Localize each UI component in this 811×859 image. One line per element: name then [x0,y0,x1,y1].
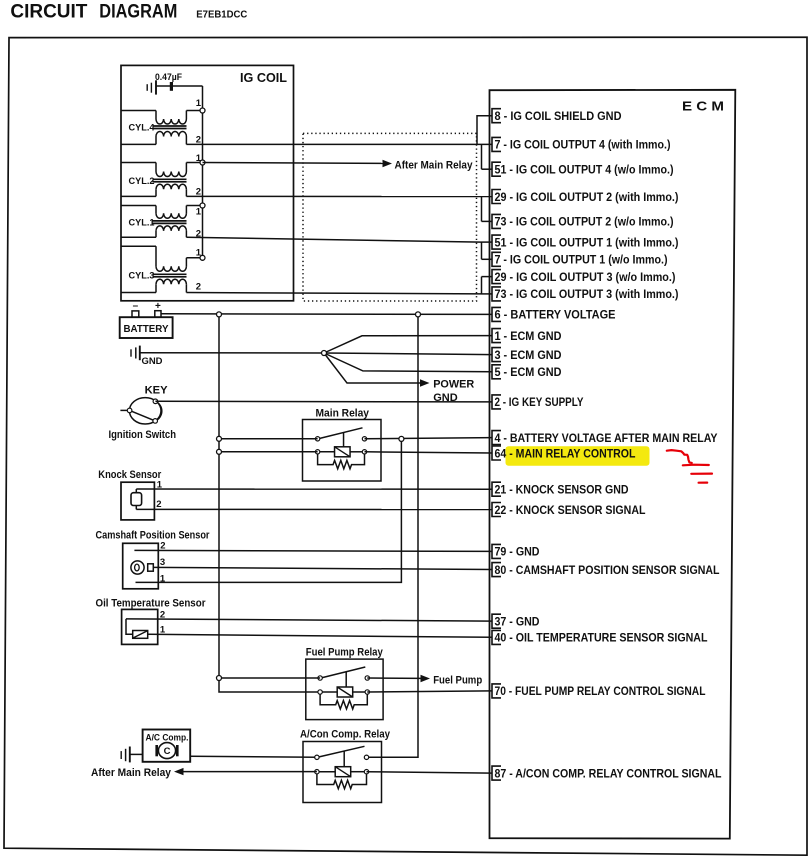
IG COIL box [121,65,294,300]
wire: coil common bus to After Main Relay [203,162,383,165]
svg-text:Knock Sensor: Knock Sensor [98,469,162,481]
wire: bus to main relay coil [219,451,318,453]
svg-text:GND: GND [142,356,163,367]
dotted harness boundary box [303,133,477,301]
wire: oil temp sensor 1 to ECM pin 40 [148,634,492,637]
svg-text:BATTERY: BATTERY [124,323,169,335]
ECM pin 7 - IG COIL OUTPUT 1 (w/o Immo.) [492,252,668,266]
wire: gnd to A/C compressor [130,753,143,755]
wire: ignition switch to ECM pin 2 [155,400,492,403]
svg-text:+: + [155,301,161,312]
svg-text:4 - BATTERY VOLTAGE AFTER MAIN: 4 - BATTERY VOLTAGE AFTER MAIN RELAY [495,433,718,445]
svg-text:2: 2 [196,282,201,293]
motor A/C compressor [143,730,191,762]
ECM pin 64 - MAIN RELAY CONTROL [492,446,636,460]
ECM pin 87 - A/CON COMP. RELAY CONTROL SIGNAL [492,766,722,780]
wire: main relay switch out to ECM pin 4 [365,438,493,439]
svg-text:51 - IG COIL OUTPUT 4 (w/o Imm: 51 - IG COIL OUTPUT 4 (w/o Immo.) [495,165,674,177]
svg-text:2: 2 [156,499,161,510]
svg-text:6 - BATTERY VOLTAGE: 6 - BATTERY VOLTAGE [495,310,616,322]
svg-text:Fuel Pump: Fuel Pump [433,675,482,687]
ECM pin 2 - IG KEY SUPPLY [492,395,584,409]
wire: gnd fan to pin 1 [324,336,492,353]
svg-text:80 - CAMSHAFT POSITION SENSOR: 80 - CAMSHAFT POSITION SENSOR SIGNAL [495,565,720,577]
ECM pin 79 - GND [492,544,540,558]
wire: After Main Relay feed to A/Con relay coil [184,771,317,773]
svg-text:Fuel Pump Relay: Fuel Pump Relay [306,647,384,659]
svg-text:51 - IG COIL OUTPUT 1 (with Im: 51 - IG COIL OUTPUT 1 (with Immo.) [495,237,679,249]
ignition switch S1 (KEY) [109,384,177,441]
svg-text:70 - FUEL PUMP RELAY CONTROL S: 70 - FUEL PUMP RELAY CONTROL SIGNAL [495,686,706,698]
svg-text:73 - IG COIL OUTPUT 3 (with Im: 73 - IG COIL OUTPUT 3 (with Immo.) [495,289,679,301]
ECM pin 37 - GND [492,614,540,628]
battery B1 [120,301,173,339]
svg-text:Ignition Switch: Ignition Switch [109,429,177,441]
svg-text:A/C Comp.: A/C Comp. [146,732,189,742]
svg-text:79 - GND: 79 - GND [495,547,540,559]
svg-text:29 - IG COIL OUTPUT 2 (with Im: 29 - IG COIL OUTPUT 2 (with Immo.) [495,192,679,204]
op ECM box [490,90,736,839]
wire: cam sensor 3 to ECM pin 80 [153,567,492,569]
oil temperature sensor (thermistor) [96,597,207,644]
wire: battery bus down to relays [219,314,320,692]
ECM pin 73 - IG COIL OUTPUT 2 (w/o Immo.) [492,214,674,228]
svg-text:After Main Relay: After Main Relay [395,159,474,171]
wire: CYL.1 output to pins 51/7 [186,237,492,259]
wire: oil temp sensor 2 to ECM pin 37 [126,619,492,621]
ECM pin 6 - BATTERY VOLTAGE [492,307,616,321]
node: junction battery line / A-Con feed [416,312,421,317]
knock sensor [98,469,163,520]
wire: fuel pump relay coil to ECM pin 70 [367,691,492,692]
wire: A/C compressor to A/Con relay switch [190,756,317,757]
wire: gnd fan to POWER GND [324,353,421,383]
svg-text:CYL.2: CYL.2 [129,176,155,187]
svg-text:DIAGRAM: DIAGRAM [99,2,177,23]
ECM pin 21 - KNOCK SENSOR GND [492,482,629,496]
svg-text:A/Con Comp. Relay: A/Con Comp. Relay [300,728,391,740]
wire: battery + to ECM pin 6 (battery voltage) [161,313,492,316]
wire: gnd fan to pin 5 [324,353,492,372]
wire: main relay coil to ECM pin 64 [365,452,493,453]
relay K3 A/Con Comp. Relay [300,728,391,802]
svg-text:2: 2 [160,540,165,551]
title CIRCUIT DIAGRAM [10,2,177,23]
capacitor C1 0.47uF [155,72,203,91]
wire: gnd fan to pin 3 [324,353,492,355]
node: After Main Relay feed (arrow + label) [383,159,474,171]
wire: battery feed down to A/Con relay switch [367,314,419,757]
node: POWER GND (arrow + label) [420,378,474,404]
wire: fuel pump relay switch out to fuel pump [367,677,420,679]
svg-text:E7EB1DCC: E7EB1DCC [196,9,247,20]
svg-text:C: C [164,746,171,757]
svg-text:29 - IG COIL OUTPUT 3 (w/o Imm: 29 - IG COIL OUTPUT 3 (w/o Immo.) [495,272,676,284]
wire: knock sensor 1 to ECM pin 21 [136,488,492,490]
ECM pin 80 - CAMSHAFT POSITION SENSOR SIGNAL [492,563,720,577]
svg-text:1: 1 [160,574,166,585]
ECM pin 40 - OIL TEMPERATURE SENSOR SIGNAL [492,630,708,644]
svg-text:22 - KNOCK SENSOR SIGNAL: 22 - KNOCK SENSOR SIGNAL [495,505,646,517]
ECM pin 51 - IG COIL OUTPUT 1 (with Immo.) [492,235,679,249]
svg-text:2 - IG KEY SUPPLY: 2 - IG KEY SUPPLY [495,397,584,409]
wire: CYL.3 output to pins 29/73 [186,277,492,294]
svg-text:8 - IG COIL SHIELD GND: 8 - IG COIL SHIELD GND [495,111,622,123]
node: coil pin-1 junctions on common bus [200,108,205,260]
wire: CYL.4 output to pins 7/51 [186,144,492,169]
svg-text:73 - IG COIL OUTPUT 2 (w/o Imm: 73 - IG COIL OUTPUT 2 (w/o Immo.) [495,217,674,229]
svg-text:37 - GND: 37 - GND [495,617,540,629]
ignition coil transformer CYL.3 [121,246,203,292]
node: junction bus / fuel pump relay switch [217,676,222,681]
svg-text:CYL.1: CYL.1 [129,218,156,229]
highlight marker on MAIN RELAY CONTROL [506,446,650,466]
svg-text:64 - MAIN RELAY CONTROL: 64 - MAIN RELAY CONTROL [495,448,636,460]
svg-text:3 - ECM GND: 3 - ECM GND [495,350,562,362]
ECM pin 3 - ECM GND [492,348,562,362]
node: After Main Relay (arrow + label, bottom) [91,767,184,779]
wire: cam sensor 2 to ECM pin 79 [134,550,492,551]
svg-text:Main Relay: Main Relay [316,408,370,420]
camshaft position sensor [96,530,211,589]
svg-text:1: 1 [196,98,202,109]
svg-text:7 - IG COIL OUTPUT 4 (with Imm: 7 - IG COIL OUTPUT 4 (with Immo.) [495,140,671,152]
svg-text:Camshaft Position Sensor: Camshaft Position Sensor [96,530,211,542]
ignition coil transformer CYL.2 [121,153,203,198]
svg-text:CYL.3: CYL.3 [129,271,155,282]
ignition coil transformer CYL.1 [121,206,203,240]
wire: main relay out down to camshaft sensor pin 1 [136,439,402,582]
relay K1 Main Relay [303,408,382,481]
ground (A/C compressor) [121,747,130,763]
node: Fuel Pump feed (arrow + label) [421,675,483,687]
svg-text:87 - A/CON COMP. RELAY CONTROL: 87 - A/CON COMP. RELAY CONTROL SIGNAL [495,768,722,780]
svg-text:CYL.4: CYL.4 [129,123,156,134]
wire: IG coil common bus (node to pin-1s) [202,86,204,258]
node: junction main relay output [399,436,404,441]
ECM pin 7 - IG COIL OUTPUT 4 (with Immo.) [492,137,671,151]
svg-text:POWER: POWER [433,378,474,390]
svg-text:Oil Temperature Sensor: Oil Temperature Sensor [96,597,207,609]
svg-text:5 - ECM GND: 5 - ECM GND [495,367,562,379]
wire: pin 8 shield gnd drop [477,116,492,145]
svg-text:E C M: E C M [682,99,724,114]
svg-text:CIRCUIT: CIRCUIT [10,2,87,23]
ECM pin 22 - KNOCK SENSOR SIGNAL [492,503,646,517]
ECM pin 51 - IG COIL OUTPUT 4 (w/o Immo.) [492,162,674,176]
svg-text:IG COIL: IG COIL [240,70,287,85]
svg-text:21 - KNOCK SENSOR GND: 21 - KNOCK SENSOR GND [495,485,629,497]
svg-text:–: – [133,301,139,312]
node: gnd fan junction [322,351,327,356]
ECM pin 70 - FUEL PUMP RELAY CONTROL SIGNAL [492,684,706,698]
svg-text:1 - ECM GND: 1 - ECM GND [495,331,562,343]
ECM pin 29 - IG COIL OUTPUT 3 (w/o Immo.) [492,270,676,284]
ECM pin 5 - ECM GND [492,365,562,379]
node: junction bus / main relay coil [217,449,222,454]
ECM pin 8 - IG COIL SHIELD GND [492,109,622,123]
svg-text:40 - OIL TEMPERATURE SENSOR SI: 40 - OIL TEMPERATURE SENSOR SIGNAL [495,633,708,645]
ECM pin 73 - IG COIL OUTPUT 3 (with Immo.) [492,287,679,301]
svg-text:KEY: KEY [145,384,169,396]
ECM pin 29 - IG COIL OUTPUT 2 (with Immo.) [492,190,679,204]
relay K2 Fuel Pump Relay [306,647,384,720]
wire: bus to main relay switch [219,438,318,440]
ground GND (battery) [131,346,163,367]
svg-text:3: 3 [160,557,165,568]
ECM pin 1 - ECM GND [492,329,562,343]
svg-text:0.47µF: 0.47µF [155,72,182,83]
annotation red scribble [667,450,712,483]
svg-text:After Main Relay: After Main Relay [91,767,172,779]
ignition coil transformer CYL.4 [121,98,203,146]
wire: A/Con relay coil to ECM pin 87 [367,772,493,773]
wire: gnd to fan node [140,352,324,354]
node: junction bus / main relay switch [217,436,222,441]
wire: knock sensor 2 to ECM pin 22 [136,508,492,510]
wire: bus to fuel pump relay switch [219,677,320,679]
node: junction battery line / bus [217,312,222,317]
wire: CYL.2 output to pins 29/73 [186,196,492,221]
ECM pin 4 - BATTERY VOLTAGE AFTER MAIN RELAY [492,431,718,445]
ground (capacitor shield gnd) [147,80,156,94]
svg-text:7 - IG COIL OUTPUT 1 (w/o Immo: 7 - IG COIL OUTPUT 1 (w/o Immo.) [495,255,668,267]
